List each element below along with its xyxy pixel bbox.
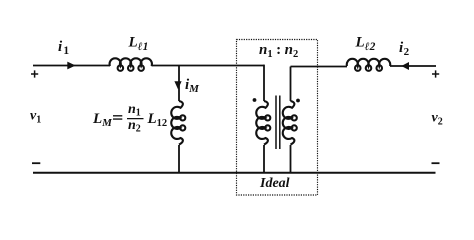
inductor LM coil bbox=[171, 101, 185, 145]
current arrow i1 bbox=[67, 62, 75, 70]
svg-text:n1:n2: n1:n2 bbox=[259, 42, 298, 60]
primary winding wire lower bbox=[263, 145, 265, 173]
svg-text:i2: i2 bbox=[399, 40, 410, 58]
polarity dot primary bbox=[253, 98, 257, 102]
primary winding coil bbox=[256, 101, 270, 145]
inductor Ll1 bbox=[110, 58, 152, 71]
secondary winding wire lower bbox=[290, 145, 292, 173]
plus sign right bbox=[432, 70, 439, 77]
top wire right end segment bbox=[390, 65, 436, 67]
minus sign right bbox=[432, 162, 440, 164]
top wire left segment bbox=[33, 65, 110, 67]
svg-text:v2: v2 bbox=[432, 111, 443, 128]
svg-text:i1: i1 bbox=[58, 39, 69, 57]
svg-text:v1: v1 bbox=[30, 109, 41, 126]
inductor Ll2 bbox=[347, 59, 390, 71]
svg-text:Lℓ1: Lℓ1 bbox=[128, 35, 149, 54]
minus sign left bbox=[32, 162, 40, 164]
svg-text:n1: n1 bbox=[128, 102, 141, 119]
current arrow i2 bbox=[401, 62, 409, 70]
secondary winding wire upper bbox=[290, 67, 292, 102]
svg-text:LM: LM bbox=[92, 111, 113, 129]
current arrow iM bbox=[174, 81, 181, 89]
svg-text:Ideal: Ideal bbox=[259, 176, 290, 191]
top wire middle segment bbox=[152, 65, 265, 67]
svg-text:L12: L12 bbox=[147, 111, 168, 129]
secondary winding coil bbox=[283, 101, 297, 145]
shunt branch wire upper bbox=[178, 66, 180, 102]
fraction bar bbox=[127, 118, 144, 120]
svg-text:iM: iM bbox=[185, 77, 200, 95]
svg-text:n2: n2 bbox=[128, 118, 141, 135]
polarity dot secondary bbox=[296, 99, 300, 103]
shunt branch wire lower bbox=[178, 145, 180, 173]
plus sign left bbox=[31, 70, 38, 77]
svg-text:Lℓ2: Lℓ2 bbox=[355, 35, 376, 54]
equals sign bbox=[113, 116, 122, 119]
transformer core lines bbox=[275, 96, 277, 150]
bottom rail bbox=[33, 172, 436, 174]
primary winding wire upper bbox=[263, 65, 265, 101]
top wire right segment inside box bbox=[291, 66, 348, 68]
dashed box Ideal transformer bbox=[237, 40, 318, 196]
